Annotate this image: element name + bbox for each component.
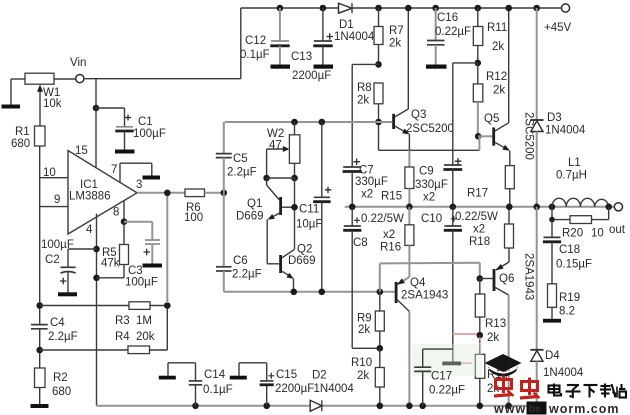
wire op-amp output [137,192,185,194]
wire Q1 base / Q2 collector column [294,178,296,249]
resistor R9 2k [357,292,384,349]
ground (C3) [143,264,163,268]
diode D3 1N4004 [530,5,586,207]
svg-text:C4: C4 [50,317,65,329]
svg-text:be: be [529,403,542,415]
resistor R14 (partly hidden) [475,335,508,406]
node R15/R16 on rail [406,204,413,211]
svg-text:x2: x2 [473,224,485,236]
svg-text:R17: R17 [467,188,488,200]
svg-text:2.2µF: 2.2µF [48,331,78,343]
svg-text:C15: C15 [276,369,297,381]
svg-text:C1: C1 [138,116,153,128]
wire output mid rail [345,206,615,208]
svg-text:R8: R8 [357,82,372,94]
diode D2 1N4004 [310,370,354,412]
svg-text:R19: R19 [559,292,580,304]
wire W1 left terminal [11,78,25,80]
node C7/C8 on rail [349,204,356,211]
node R17/R18 on rail [506,204,513,211]
wire riser to +45V rail [240,8,242,79]
svg-text:R9: R9 [357,313,372,325]
resistor R2 680 [35,368,72,404]
svg-text:47: 47 [269,140,282,152]
svg-text:C13: C13 [291,51,312,63]
potentiometer W1 10k [25,73,62,126]
svg-text:15: 15 [75,145,88,157]
svg-text:D1: D1 [339,19,354,31]
wire driver bottom bus [224,291,395,293]
svg-text:C18: C18 [559,244,580,256]
svg-text:0.1µF: 0.1µF [240,49,270,61]
svg-text:0.7µH: 0.7µH [556,170,587,182]
ground bar (C10/C17 plate) [442,362,461,366]
resistor R6 100 [184,189,224,224]
svg-text:R16: R16 [380,242,401,254]
svg-text:0.22µF: 0.22µF [429,385,465,397]
svg-text:2k: 2k [492,41,504,53]
svg-text:C3: C3 [128,265,143,277]
node R3 tap [36,302,43,309]
node W2 wiper [263,175,270,182]
svg-text:0.15µF: 0.15µF [556,259,592,271]
svg-text:x2: x2 [361,189,373,201]
ground (C14) [159,376,176,380]
wire +45V rail [241,7,562,9]
svg-text:0.22/5W: 0.22/5W [455,211,498,223]
svg-text:D4: D4 [545,350,560,362]
svg-text:R20: R20 [562,228,583,240]
diode D4 1N4004 [530,207,584,406]
svg-text:0.22µF: 0.22µF [435,26,471,38]
svg-text:C11: C11 [299,204,319,216]
ground (pin 7) [143,176,161,180]
svg-text:0.22/5W: 0.22/5W [361,213,404,225]
capacitor C15 2200uF [239,363,314,409]
svg-text:Q6: Q6 [499,273,514,285]
svg-text:2SA1943: 2SA1943 [523,253,535,300]
resistor R20 10 (parallel with L1) [549,207,609,240]
svg-text:x2: x2 [383,229,395,241]
svg-text:R4: R4 [115,331,130,343]
svg-text:R7: R7 [389,25,404,37]
svg-text:R1: R1 [15,126,30,138]
node pin8/R5/C3 [121,218,128,225]
svg-text:100µF: 100µF [125,277,158,289]
svg-text:R11: R11 [487,22,507,34]
svg-text:2k: 2k [493,85,505,97]
svg-text:R12: R12 [486,71,507,83]
svg-text:1N4004: 1N4004 [545,125,586,137]
svg-text:R10: R10 [351,357,372,369]
capacitor C7 330uF x2 [343,159,388,207]
svg-text:out: out [609,224,626,236]
transistor Q3 2SC5200 [392,8,454,150]
ground (C12) [271,65,291,69]
svg-text:R18: R18 [469,236,490,248]
svg-text:+45V: +45V [544,22,572,34]
svg-text:C16: C16 [437,12,458,24]
node C9/C10 on rail [450,204,457,211]
capacitor C10 0.22/5W x2 [421,207,498,362]
transistor Q5 2SC5200 [478,8,534,166]
svg-text:2.2µF: 2.2µF [227,167,257,179]
node Q6 collector on bus [505,403,512,410]
watermark site name (vector CJK) [549,384,627,398]
svg-text:C10: C10 [421,213,442,225]
resistor R18 [505,207,514,262]
node Q6 base / R13 [477,275,484,282]
wire Vin node to pin15/C1 junction [84,79,241,108]
node R13/R14 [477,332,484,339]
svg-text:680: 680 [52,386,71,398]
svg-text:Q2: Q2 [297,244,312,256]
inductor L1 0.7uH [549,157,609,210]
wire Q5 base link down [478,136,480,150]
svg-text:10: 10 [591,228,604,240]
svg-text:1N4004: 1N4004 [543,367,584,379]
svg-text:C17: C17 [431,371,452,383]
node Q4 collector on bus [406,403,413,410]
wire R3 row [40,305,129,307]
capacitor C5 2.2uF [216,122,257,193]
svg-text:Q5: Q5 [484,113,499,125]
svg-text:R13: R13 [485,318,506,330]
svg-text:8: 8 [113,207,119,219]
svg-text:R15: R15 [381,191,402,203]
wire pin9 [40,206,68,208]
watermark graduation cap [485,354,522,377]
node feedback/R3 junction [164,302,171,309]
svg-text:Q1: Q1 [247,198,262,210]
wire W1 to Vin terminal [54,78,76,80]
svg-text:100µF: 100µF [133,128,166,140]
svg-text:1M: 1M [136,315,152,327]
svg-text:2SC5200: 2SC5200 [406,123,454,135]
capacitor C6 2.2uF [216,193,262,292]
svg-text:x2: x2 [423,192,435,204]
resistor R11 2k [473,5,507,63]
capacitor C17 0.22uF [412,344,482,409]
capacitor C11 10uF [296,119,331,292]
svg-text:D669: D669 [236,211,264,223]
node R14 on bus [477,403,484,410]
node Q1 base [291,204,298,211]
capacitor C1 100uF [96,108,166,150]
svg-text:100: 100 [184,212,203,224]
wire pin10 [40,177,68,179]
svg-text:R2: R2 [53,372,68,384]
resistor R13 2k [475,279,506,345]
wire wiper tie [267,177,295,179]
resistor R12 2k [473,63,507,136]
svg-text:330µF: 330µF [415,179,448,191]
resistor R8 2k [357,82,383,150]
node L1 right [605,204,612,211]
resistor R16 [380,207,414,277]
svg-text:9: 9 [54,194,60,206]
node R7/R8/C7 junction [375,61,382,68]
resistor R19 8.2 [548,284,581,319]
svg-text:D2: D2 [312,370,327,382]
svg-text:C7: C7 [359,165,374,177]
node Q3 collector rail [405,5,412,12]
node D4 on bus [533,403,540,410]
wire pin 8 [123,201,125,222]
svg-text:C12: C12 [245,35,266,47]
wire -45V bottom bus [97,405,546,407]
svg-text:D3: D3 [547,112,562,124]
node Q5 base [475,133,482,140]
transistor Q2 D669 [267,244,315,292]
node C2 tap [93,246,100,253]
capacitor C3 100uF [124,222,160,289]
node C11 bottom on bus [319,289,326,296]
capacitor C2 100uF [41,239,97,292]
diode D1 1N4004 [334,3,375,43]
svg-text:1N4004: 1N4004 [334,31,375,43]
svg-text:1N4004: 1N4004 [314,383,355,395]
svg-text:C6: C6 [233,255,248,267]
potentiometer W2 47 [267,119,300,178]
svg-text:worm.com: worm.com [548,402,620,415]
terminal +45V [544,4,572,34]
wire link to C9 [453,63,478,165]
watermark url [493,402,620,415]
resistor R15 [381,150,414,207]
svg-text:W2: W2 [267,128,284,140]
svg-text:680: 680 [11,138,30,150]
capacitor C18 0.15uF [543,220,592,284]
ground (C15) [230,376,247,380]
resistor R3 1M [115,302,167,327]
wire pin 15 [95,108,97,167]
svg-text:0.1µF: 0.1µF [203,384,233,396]
svg-text:Vin: Vin [70,57,86,69]
svg-text:2SA1943: 2SA1943 [401,290,448,302]
svg-text:C9: C9 [419,166,434,178]
svg-text:2k: 2k [357,370,369,382]
node Q3 base [375,119,382,126]
svg-text:3: 3 [136,179,142,191]
resistor R10 2k [351,348,384,406]
ground (C13) [314,65,334,69]
svg-text:C14: C14 [204,369,226,381]
transistor Q4 2SA1943 [395,277,449,406]
svg-text:C2: C2 [45,254,60,266]
svg-text:330µF: 330µF [355,176,388,188]
resistor R5 47k [97,222,129,278]
wire pin 7 to ground [120,163,152,182]
svg-text:D669: D669 [288,255,316,267]
svg-text:10: 10 [43,167,56,179]
svg-text:www.: www. [493,402,530,415]
node R11/R12/C9 junction [475,60,482,67]
svg-text:Q3: Q3 [411,109,426,121]
capacitor C16 0.22uF [427,5,471,65]
capacitor C12 0.1uF [240,5,290,65]
capacitor C4 2.2uF [31,317,78,368]
node output/feedback [164,190,171,197]
transistor Q6 2SA1943 [480,253,535,406]
svg-text:LM3886: LM3886 [69,191,111,203]
resistor R1 680 [11,126,45,325]
capacitor C14 0.1uF [168,363,233,409]
wire feedback vertical [166,193,168,303]
node R5 bottom tap [93,275,100,282]
ground (R19) [543,319,561,323]
wire R4 row [40,349,128,351]
svg-text:2.2µF: 2.2µF [232,269,262,281]
resistor R7 2k [374,5,404,65]
node R4 tap [36,347,43,354]
node Q5 collector rail [505,5,512,12]
svg-text:20k: 20k [136,331,155,343]
node R6/C5/C6 [221,190,228,197]
wire driver top bus [225,121,392,123]
svg-text:C8: C8 [353,237,368,249]
svg-text:2k: 2k [357,95,369,107]
svg-text:R3: R3 [115,315,130,327]
svg-text:7: 7 [111,164,117,176]
svg-text:10k: 10k [43,98,62,110]
terminal out [609,203,626,236]
capacitor C13 2200uF [291,5,333,82]
svg-text:2200µF: 2200µF [275,383,314,395]
resistor R4 20k [115,306,167,354]
svg-text:100µF: 100µF [41,239,74,251]
svg-text:Q4: Q4 [410,277,426,289]
wire link to C7 [352,64,378,167]
ground (below R2) [31,404,49,408]
capacitor C8 0.22/5W x2 [343,207,404,348]
wire pin 4 vertical [96,214,98,406]
node R9/R10/C8 [377,345,384,352]
capacitor C9 330uF x2 [415,158,462,207]
svg-text:47k: 47k [101,258,120,270]
node Q2 emitter on bus [291,289,298,296]
node W2 bottom [291,175,298,182]
watermark red characters (vector, CJK not in Liberation) [494,376,540,399]
svg-text:IC1: IC1 [80,179,98,191]
svg-text:2k: 2k [389,38,401,50]
node Q4 base [377,289,384,296]
ground (left of W1) [2,79,21,109]
node R10 on bus [377,403,384,410]
svg-text:2k: 2k [487,332,499,344]
svg-text:2k: 2k [358,324,370,336]
svg-text:2200µF: 2200µF [292,70,331,82]
ground (C1) [115,150,135,154]
node D3/D4 on rail [533,204,540,211]
svg-text:8.2: 8.2 [559,306,575,318]
ground (C2) [58,292,77,296]
op-amp IC1 LM3886 [43,145,142,236]
ground (C16) [426,65,447,69]
transistor Q1 D669 [236,178,295,264]
svg-text:L1: L1 [568,157,581,169]
resistor R17 [467,166,514,207]
svg-text:C5: C5 [233,153,248,165]
wire Q4/Q6 base link [380,263,480,292]
svg-text:4: 4 [86,224,93,236]
svg-text:10µF: 10µF [296,219,322,231]
watermark red tassel lines [452,334,480,363]
terminal Vin [70,57,86,83]
wire driver link (Q3 emitter row) [379,149,480,151]
node Vin/pin15 junction [93,105,100,112]
